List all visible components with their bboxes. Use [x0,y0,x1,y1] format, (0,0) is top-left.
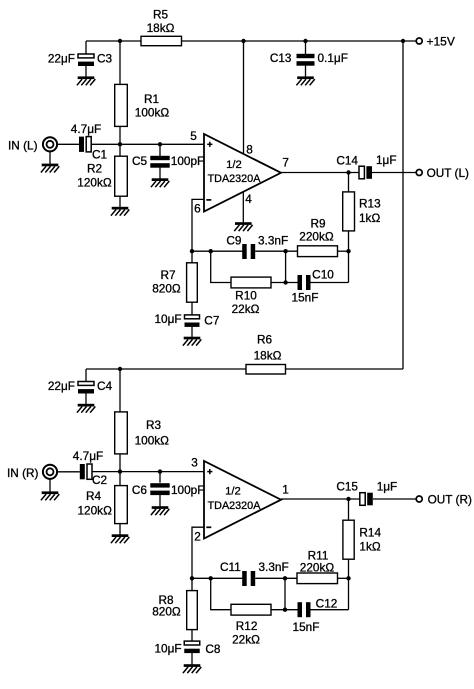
svg-text:22μF: 22μF [48,52,75,66]
svg-text:100kΩ: 100kΩ [135,433,170,447]
wire R8 top [191,578,193,590]
value C8 10uF [154,642,181,656]
wire output pin 1 [281,498,360,500]
value C3 22uF [48,52,75,66]
svg-text:C9: C9 [226,233,241,247]
label IN (R) [7,466,39,480]
value R14 1k [359,539,380,553]
svg-text:10μF: 10μF [154,312,181,326]
value R4 120k [77,503,112,517]
capacitor C9 3.3nF [242,244,255,259]
wire R12 branch [211,578,231,609]
svg-text:1/2: 1/2 [226,159,242,171]
label R5 [153,8,169,22]
capacitor C1 4.7uF [79,137,91,152]
capacitor C13 0.1uF [297,54,315,66]
label R7 [160,268,175,282]
value C13 0.1uF [318,51,348,65]
label C7 [204,314,219,328]
label OUT (R) [428,492,472,506]
label R12 [236,619,258,633]
ground under C8 [183,664,201,673]
wire C4 corner [85,369,87,382]
value R7 820 [152,281,181,295]
svg-text:C1: C1 [92,148,107,162]
label R8 [158,593,174,607]
svg-text:15nF: 15nF [293,620,320,634]
value C14 1uF [376,153,397,167]
wire R9 to R13 [338,250,349,252]
wire jack to C1 [57,143,79,145]
label R4 [86,489,102,503]
wire fb node to C9 [192,250,243,252]
input jack IN L [43,137,57,151]
svg-text:R9: R9 [310,217,325,231]
value C9 3.3nF [258,233,288,247]
wire R10 branch [211,251,231,282]
wire +15V rail left segment [86,40,141,42]
value R6 18k [254,348,282,362]
resistor R9 body [298,246,338,257]
svg-text:1μF: 1μF [376,153,397,167]
svg-text:10μF: 10μF [154,642,181,656]
resistor R2 body [115,156,128,196]
wire C6 to ground [159,495,161,506]
wire R1 bottom [119,126,121,144]
wire R12 to link2 [271,609,298,611]
resistor R5 body [141,36,182,45]
value C11 3.3nF [259,560,289,574]
op-amp U1a triangle [204,134,281,212]
label C1 [92,148,107,162]
wire C8 to ground [191,653,193,665]
wire link2 vertical [284,578,286,609]
label R2 [87,162,102,176]
resistor R14 body [343,520,354,559]
resistor R3 body [115,412,128,454]
wire C13 to ground [305,65,307,76]
wire R4 bottom [119,524,121,535]
op-amp U1b minus mark [206,526,211,528]
label R10 [235,289,257,303]
svg-text:120kΩ: 120kΩ [77,175,112,189]
label +15V [427,35,455,49]
capacitor C7 10uF [185,315,200,327]
node junction out-C14 [346,170,350,174]
wire R7 top [191,251,193,263]
svg-text:2: 2 [194,529,201,543]
pin 8 label [246,142,253,156]
value R13 1k [359,211,380,225]
node junction link2-R12 [283,608,287,612]
ground under C4 [77,404,95,413]
label C10 [312,268,334,282]
svg-text:18kΩ: 18kΩ [254,348,282,362]
value R11 220k [300,560,335,574]
wire C10 to R13 [311,282,349,284]
svg-text:TDA2320A: TDA2320A [208,173,262,185]
wire C3 corner [85,41,87,54]
value C12 15nF [293,620,320,634]
svg-text:C2: C2 [92,473,107,487]
ground under jack L [41,164,59,173]
svg-text:1μF: 1μF [377,480,398,494]
svg-text:22μF: 22μF [48,379,75,393]
capacitor C4 22uF [78,382,94,394]
pin 4 label [245,192,252,206]
svg-text:R7: R7 [160,268,175,282]
svg-text:22kΩ: 22kΩ [232,302,260,316]
capacitor C2 4.7uF [80,464,92,479]
node junction rail2-R3 [118,367,122,371]
svg-text:100kΩ: 100kΩ [135,106,170,120]
svg-text:1kΩ: 1kΩ [359,211,380,225]
svg-text:R3: R3 [146,418,162,432]
wire pin 6 stub [192,199,204,251]
resistor R10 body [231,277,271,288]
resistor R6 body [246,365,286,375]
svg-text:C5: C5 [132,154,148,168]
value C5 100pF [171,154,204,168]
ground under jack R [41,491,59,500]
node junction C11-link [283,576,287,580]
svg-text:OUT (R): OUT (R) [428,492,472,506]
capacitor C11 3.3nF [242,571,255,586]
capacitor C3 22uF [78,54,94,66]
label IN (L) [8,139,38,153]
svg-text:C15: C15 [336,480,358,494]
wire R13 top [348,173,350,193]
svg-text:+15V: +15V [427,35,455,49]
value C15 1uF [377,480,398,494]
op-amp U1a label TDA2320A [208,173,262,185]
value C2 4.7uF [73,449,103,463]
wire R14 bottom [348,559,350,610]
svg-text:1: 1 [282,483,289,497]
pin 7 label [282,155,289,169]
node junction R14-R11 [346,576,350,580]
svg-text:220kΩ: 220kΩ [300,560,335,574]
wire R3 top [119,369,121,412]
wire right rail vertical [402,41,404,369]
resistor R13 body [343,192,355,231]
label R1 [144,92,159,106]
svg-text:4: 4 [245,192,252,206]
node junction in-R2 [118,142,122,146]
svg-text:3.3nF: 3.3nF [259,560,289,574]
node junction R13-R9 [346,249,350,253]
label C3 [97,52,113,66]
node junction fb-pin6 [190,249,194,253]
terminal OUT L [416,170,422,176]
wire C3 to ground [85,66,87,77]
wire jack R to C2 [57,471,80,473]
wire C9 to R9 [255,250,297,252]
label C14 [336,154,358,168]
resistor R12 body [231,604,271,615]
label C6 [132,483,148,497]
node junction link-R10 [283,280,287,284]
wire R8 to C8 [191,630,193,642]
svg-text:C10: C10 [312,268,334,282]
op-amp U1b label TDA2320A [208,500,262,512]
op-amp U1b plus mark [207,469,212,474]
svg-text:C6: C6 [132,483,148,497]
pin 1 label [282,483,289,497]
pin 5 label [190,129,197,143]
svg-text:C13: C13 [270,51,292,65]
pin 2 label [194,529,201,543]
svg-text:820Ω: 820Ω [152,605,181,619]
resistor R8 body [187,591,198,630]
value C10 15nF [292,291,319,305]
capacitor C13 wire [305,41,307,54]
svg-text:6: 6 [194,201,201,215]
svg-text:C7: C7 [204,314,219,328]
capacitor C14 1uF [359,166,372,179]
ground pin 4 [234,222,252,231]
wire R2 top [119,144,121,156]
pin 6 label [194,201,201,215]
svg-text:R6: R6 [257,333,273,347]
op-amp U1a plus mark [207,142,212,147]
wire output pin 7 [281,172,359,174]
wire R1 top [119,41,121,85]
value R8 820 [152,605,181,619]
value R10 22k [232,302,260,316]
wire C7 to ground [191,326,193,337]
wire R3 bottom [119,454,121,472]
wire C14 to OUT L [372,172,416,174]
input jack IN R [43,465,57,479]
resistor R4 body [115,486,128,524]
value R12 22k [232,632,260,646]
svg-text:IN (L): IN (L) [8,139,38,153]
wire R7 to C7 [191,302,193,315]
pin 3 label [191,456,198,470]
svg-text:IN (R): IN (R) [7,466,39,480]
ground under R2 [111,207,129,216]
wire pin 4 [242,192,244,223]
svg-text:7: 7 [282,155,289,169]
svg-text:8: 8 [246,142,253,156]
svg-text:R5: R5 [153,8,169,22]
ground under C3 [77,76,95,85]
wire fb2 node to C11 [192,577,243,579]
wire R2 bottom [119,196,121,207]
svg-text:820Ω: 820Ω [152,281,181,295]
label R3 [146,418,162,432]
op-amp U1b triangle [204,461,281,539]
value R1 100k [135,106,170,120]
wire C5 top [159,144,161,156]
capacitor C10 15nF [298,275,311,290]
svg-text:1/2: 1/2 [225,486,241,498]
wire C12 to R14 [311,609,349,611]
svg-text:120kΩ: 120kΩ [77,503,112,517]
op-amp U1b label 1/2 [225,486,241,498]
label R14 [359,526,381,540]
capacitor C5 100pF [150,156,169,168]
svg-text:100pF: 100pF [171,154,204,168]
capacitor C12 15nF [298,602,311,617]
op-amp U1a minus mark [206,199,211,201]
svg-text:100pF: 100pF [171,483,204,497]
svg-text:R13: R13 [359,197,381,211]
svg-text:18kΩ: 18kΩ [147,21,175,35]
resistor R11 body [297,573,338,584]
value C4 22uF [48,379,75,393]
label C11 [220,560,241,574]
node junction in2-C6 [158,469,162,473]
resistor R7 body [187,263,198,302]
wire C6 top [159,472,161,483]
wire C1 to opamp + [91,143,204,145]
value C1 4.7uF [71,122,101,136]
svg-text:3: 3 [191,456,198,470]
label C5 [132,154,148,168]
label R11 [308,548,329,562]
node junction fb2-R12 [209,576,213,580]
wire link vertical [285,251,287,282]
svg-text:C12: C12 [316,597,338,611]
wire R6 rail left [86,368,246,370]
label R13 [359,197,381,211]
svg-text:R10: R10 [235,289,257,303]
node junction rail-pin8 [241,39,245,43]
ground under C7 [183,337,201,346]
node junction fb-R10 [209,249,213,253]
value C7 10uF [154,312,181,326]
ground under R4 [111,534,129,543]
svg-text:C4: C4 [97,379,113,393]
value C6 100pF [171,483,204,497]
resistor R1 body [115,84,128,126]
wire C15 to OUT R [373,498,416,500]
label C12 [316,597,338,611]
label C4 [97,379,113,393]
label OUT (L) [427,166,469,180]
terminal OUT R [416,496,422,502]
label C13 [270,51,292,65]
svg-text:R12: R12 [236,619,258,633]
wire C2 to opamp + [92,471,204,473]
wire jack ground [49,151,51,164]
svg-text:C11: C11 [220,560,241,574]
node junction out2-C15 [346,497,350,501]
svg-text:1kΩ: 1kΩ [359,539,380,553]
node junction C9-link [283,249,287,253]
wire R13 bottom [348,231,350,283]
label C15 [336,480,358,494]
wire pin 2 stub [192,527,204,578]
label C2 [92,473,107,487]
svg-text:5: 5 [190,129,197,143]
svg-text:4.7μF: 4.7μF [73,449,103,463]
value R9 220k [299,230,334,244]
svg-text:3.3nF: 3.3nF [258,233,288,247]
wire R11 to R14 [338,577,349,579]
svg-text:0.1μF: 0.1μF [318,51,348,65]
node junction fb2-pin2 [190,576,194,580]
capacitor C8 10uF [184,641,200,653]
svg-text:R14: R14 [359,526,381,540]
svg-text:22kΩ: 22kΩ [232,632,260,646]
ground under C5 [151,178,169,187]
wire C5 to ground [159,167,161,179]
svg-text:R2: R2 [87,162,102,176]
wire R6 rail right [286,368,404,370]
label C8 [205,642,221,656]
svg-text:C14: C14 [336,154,358,168]
svg-text:OUT (L): OUT (L) [427,166,469,180]
node junction rail-right [401,39,405,43]
node junction rail-C13 [303,39,307,43]
svg-text:4.7μF: 4.7μF [71,122,101,136]
value R5 18k [147,21,175,35]
label R9 [310,217,325,231]
ground under C13 [296,76,314,85]
svg-text:R1: R1 [144,92,159,106]
terminal +15V [416,38,422,44]
svg-text:TDA2320A: TDA2320A [208,500,262,512]
label R6 [257,333,273,347]
svg-text:C3: C3 [97,52,113,66]
svg-text:C8: C8 [205,642,221,656]
wire R4 top [119,472,121,486]
value R3 100k [135,433,170,447]
wire R14 top [348,499,350,520]
wire R10 to link [271,282,298,284]
op-amp U1a label 1/2 [226,159,242,171]
value R2 120k [77,175,112,189]
svg-text:15nF: 15nF [292,291,319,305]
wire C4 to ground [85,394,87,405]
node junction rail-R1 [118,39,122,43]
ground under C6 [151,506,169,515]
wire jack R ground [49,479,51,492]
node junction in2-R4 [118,469,122,473]
capacitor C15 1uF [360,493,373,506]
label C9 [226,233,241,247]
capacitor C6 100pF [150,483,169,495]
svg-text:R4: R4 [86,489,102,503]
wire +15V rail right segment [182,40,417,42]
wire C11 to R11 [255,577,297,579]
svg-text:220kΩ: 220kΩ [299,230,334,244]
wire pin 8 supply [243,41,245,154]
node junction in-C5 [158,142,162,146]
